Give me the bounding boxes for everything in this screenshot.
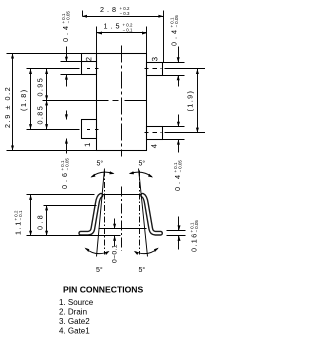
svg-text:2. Drain: 2. Drain: [59, 308, 87, 317]
svg-text:(1.9): (1.9): [186, 90, 195, 112]
svg-text:− 0.05: − 0.05: [65, 158, 70, 171]
svg-text:0.4: 0.4: [173, 172, 182, 191]
svg-text:0~0.1: 0~0.1: [112, 244, 119, 263]
svg-text:(1.8): (1.8): [19, 88, 28, 111]
svg-text:− 0.3: − 0.3: [120, 11, 130, 16]
svg-text:− 0.1: − 0.1: [123, 27, 133, 32]
svg-text:5°: 5°: [97, 160, 104, 168]
svg-text:5°: 5°: [96, 266, 103, 274]
svg-text:2.9 ± 0.2: 2.9 ± 0.2: [3, 86, 12, 128]
svg-text:0.8: 0.8: [36, 213, 45, 230]
svg-text:0.4: 0.4: [170, 27, 179, 46]
svg-text:0.85: 0.85: [36, 105, 45, 125]
svg-text:0.4: 0.4: [61, 23, 70, 42]
svg-text:2.8: 2.8: [100, 5, 119, 14]
svg-text:− 0.05: − 0.05: [194, 220, 199, 233]
svg-text:PIN CONNECTIONS: PIN CONNECTIONS: [63, 284, 143, 294]
svg-text:− 0.05: − 0.05: [178, 160, 183, 173]
svg-text:5°: 5°: [139, 266, 146, 274]
svg-text:4. Gate1: 4. Gate1: [59, 327, 90, 336]
svg-text:3. Gate2: 3. Gate2: [59, 317, 90, 326]
svg-text:0.16: 0.16: [190, 232, 199, 252]
svg-text:1. Source: 1. Source: [59, 298, 94, 307]
svg-text:− 0.1: − 0.1: [18, 210, 23, 220]
svg-text:1.5: 1.5: [104, 21, 123, 30]
svg-text:− 0.05: − 0.05: [174, 15, 179, 28]
svg-text:1.1: 1.1: [14, 220, 23, 235]
svg-text:− 0.05: − 0.05: [66, 11, 71, 24]
svg-text:5°: 5°: [139, 160, 146, 168]
svg-text:0.95: 0.95: [36, 77, 45, 97]
svg-text:0.6: 0.6: [60, 170, 69, 189]
